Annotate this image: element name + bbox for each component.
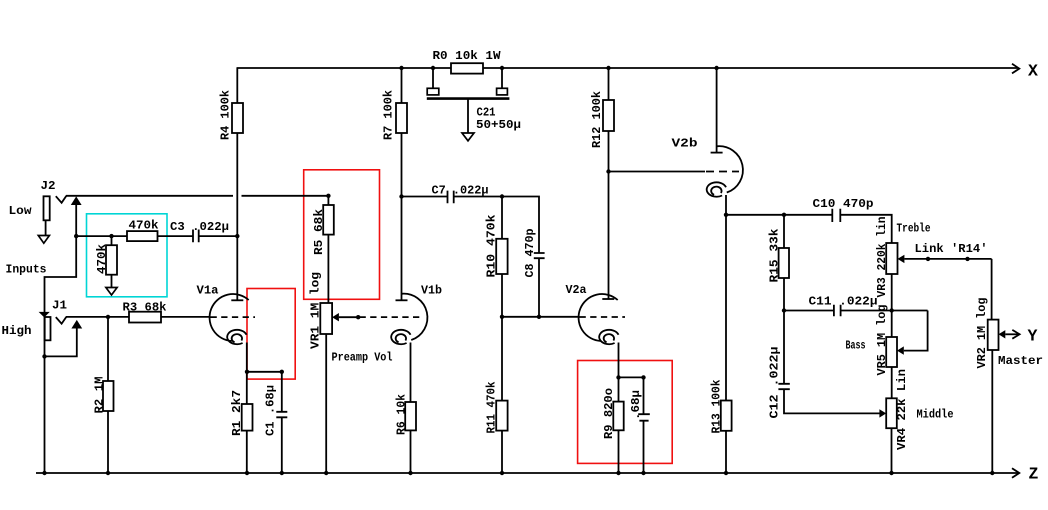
capacitor C3 (193, 230, 199, 243)
wire C7 to R10/C8 (454, 197, 539, 254)
svg-text:R0 10k 1W: R0 10k 1W (433, 49, 502, 63)
V1a cathode curl (227, 330, 246, 344)
resistor R2 (103, 381, 114, 411)
wire V2b plate (716, 68, 718, 153)
node R9 top (616, 375, 620, 379)
svg-text:C10 470p: C10 470p (813, 197, 874, 211)
wire R5/VR1 column (327, 196, 329, 303)
node V2b cathode junction (724, 213, 728, 217)
node cathode junction (245, 370, 249, 374)
wire cathode to bypass cap (619, 376, 644, 378)
wire V2b cathode / R13 (725, 195, 727, 473)
wire V1a cathode (246, 343, 248, 474)
jack J1 high input (45, 317, 51, 340)
J1 switch contact arrow (71, 320, 82, 329)
svg-text:R11 470k: R11 470k (485, 381, 499, 433)
resistor R6 (405, 402, 416, 430)
svg-text:Low: Low (9, 204, 33, 218)
potentiometer VR2 master volume (988, 320, 999, 350)
node R5 top (326, 194, 330, 198)
wire plate to C7 (402, 196, 448, 198)
node rail R13 (724, 471, 728, 475)
wire VR1 wiper (339, 316, 358, 318)
svg-text:R15 33k: R15 33k (768, 228, 782, 283)
node rail J1 (42, 471, 46, 475)
wire VR5 wiper loop (904, 311, 928, 351)
node link left (926, 257, 930, 261)
wire V1b grid dashed (360, 316, 421, 318)
wire V2a grid dashed (580, 316, 626, 318)
svg-text:V2a: V2a (566, 283, 588, 297)
svg-text:R5 68k: R5 68k (312, 208, 326, 255)
highlight box red R5 region (304, 170, 380, 299)
svg-text:R1 2k7: R1 2k7 (230, 390, 244, 436)
J2 tip contact (56, 196, 67, 203)
svg-text:C7 .022µ: C7 .022µ (432, 184, 489, 198)
wire R4 column (236, 68, 238, 300)
node rail R2 (106, 471, 110, 475)
node C21 right (500, 66, 504, 70)
node R7 rail (399, 66, 403, 70)
svg-text:Y: Y (1028, 327, 1038, 346)
wire C21 right lead (501, 68, 503, 88)
wire C12 to VR4 wiper (784, 389, 880, 413)
svg-text:High: High (2, 324, 32, 338)
svg-text:C11 .022µ: C11 .022µ (809, 295, 878, 309)
capacitor C8 (534, 253, 545, 258)
svg-text:R4 100k: R4 100k (219, 89, 233, 140)
capacitor C11 (834, 305, 841, 316)
highlight box red V1a cathode region (247, 289, 295, 380)
resistor R13 (721, 401, 732, 431)
node R10 top (500, 194, 504, 198)
capacitor C7 (448, 191, 454, 204)
svg-text:Master Vol: Master Vol (998, 354, 1048, 368)
svg-text:X: X (1028, 62, 1038, 81)
potentiometer VR4 middle (886, 398, 897, 428)
node C21 left (431, 66, 435, 70)
V1b cathode curl (391, 330, 410, 344)
VR3 wiper arrow (898, 255, 905, 263)
wire VR4 bottom (891, 428, 893, 473)
wire J2 switch down (45, 205, 77, 313)
wire J2 tip (66, 195, 233, 197)
VR4 wiper arrow (879, 409, 886, 417)
svg-text:J1: J1 (52, 299, 67, 313)
svg-text:Link 'R14': Link 'R14' (915, 242, 988, 256)
node V2b rail (714, 66, 718, 70)
wire V1b cathode / R6 (410, 343, 412, 474)
VR2 wiper arrow (999, 330, 1006, 338)
wire J1 tip to R3 (66, 316, 129, 318)
svg-text:R3 68k: R3 68k (123, 301, 168, 315)
V2a cathode curl (599, 330, 618, 344)
resistor R12 (603, 100, 614, 131)
wire VR2 top (991, 259, 993, 320)
resistor R7 (396, 103, 407, 133)
resistor R11 (496, 401, 507, 431)
wire link R14 (904, 258, 991, 260)
wire VR1 bottom (325, 334, 327, 473)
wire R11 column (501, 317, 503, 473)
resistor R1 (242, 404, 253, 431)
wire V1a grid dashed (211, 316, 256, 318)
wire V2b grid dashed (706, 171, 739, 173)
svg-text:470k: 470k (129, 219, 160, 233)
svg-text:R7 100k: R7 100k (382, 89, 396, 140)
node rail C1 (280, 471, 284, 475)
node rail R6 (408, 471, 412, 475)
resistor R5 (323, 205, 334, 235)
node VR1 wiper (356, 315, 360, 319)
VR1 wiper arrow (332, 313, 339, 321)
wire J2 tip (after hop over R4 line) (242, 195, 329, 197)
V1b plate bar (396, 299, 408, 301)
resistor R4 (232, 103, 243, 133)
potentiometer VR5 bass (886, 337, 897, 367)
wire C21 ground (467, 99, 469, 133)
svg-text:.68µ: .68µ (629, 390, 643, 420)
VR5 wiper arrow (897, 346, 904, 354)
wire C21 left lead (432, 68, 434, 88)
jack J2 low input (44, 196, 50, 220)
svg-text:R13 100k: R13 100k (710, 379, 724, 433)
svg-text:Treble: Treble (897, 222, 931, 236)
svg-text:C3 .022µ: C3 .022µ (170, 220, 229, 234)
wire R2 column (107, 317, 109, 473)
wire R7/V1b plate column (401, 68, 403, 300)
svg-text:470k: 470k (95, 243, 109, 274)
ground arrow J2 (38, 236, 49, 244)
node rail R11 (500, 471, 504, 475)
power rail X (237, 67, 1019, 69)
V1a plate bar (231, 299, 243, 301)
resistor R3 (129, 312, 161, 323)
resistor R15 (779, 248, 789, 278)
resistor 470k shunt (106, 245, 117, 275)
wire 470k shunt (111, 236, 113, 287)
node R12 / V2b grid (606, 169, 610, 173)
ground rail Z (36, 472, 1018, 474)
node rail bypass cap (641, 471, 645, 475)
node rail VR2 (990, 471, 994, 475)
node bypass cap top (641, 375, 645, 379)
J2 switch contact arrow (71, 196, 82, 205)
wire R15 column (783, 215, 785, 384)
node rail VR1 (324, 471, 328, 475)
wire cathode to tone stack (726, 214, 832, 216)
node J1/R2 (106, 315, 110, 319)
capacitor C21 plate (427, 97, 510, 100)
resistor R0 in rail (451, 63, 483, 73)
wire output Y (1005, 333, 1018, 335)
svg-text:VR5 1M log: VR5 1M log (875, 305, 889, 376)
V2a plate bar (602, 298, 614, 300)
node rail VR4 (889, 471, 893, 475)
wire V2b grid (609, 171, 706, 173)
svg-text:VR4 22k Lin: VR4 22k Lin (895, 369, 909, 450)
node R15 top (782, 213, 786, 217)
svg-text:R6 10k: R6 10k (395, 393, 409, 435)
svg-text:VR3 220k lin: VR3 220k lin (875, 217, 889, 298)
highlight box red R9 region (578, 361, 673, 464)
wire C10 to VR3 (840, 215, 891, 243)
capacitor C1 (281, 372, 283, 473)
wire C11 left (784, 310, 834, 312)
wire 470k/C3 row (76, 235, 193, 237)
wire C8 bottom (538, 258, 540, 317)
wire VR5 to VR4 (891, 367, 893, 398)
svg-text:C1 .68µ: C1 .68µ (264, 385, 278, 436)
svg-text:J2: J2 (41, 179, 56, 193)
node rail R9 (616, 471, 620, 475)
highlight box cyan (470k input attenuator) (87, 214, 168, 297)
V2b plate bar (711, 152, 723, 154)
svg-text:VR1 1M log: VR1 1M log (309, 272, 323, 349)
svg-text:V1b: V1b (421, 284, 442, 298)
C21 right pad (497, 88, 508, 95)
svg-text:VR2 1M log: VR2 1M log (975, 298, 989, 369)
potentiometer VR3 treble (886, 243, 897, 274)
resistor 470k series (127, 231, 158, 241)
svg-text:Bass: Bass (846, 339, 866, 353)
svg-text:R9 820o: R9 820o (602, 388, 616, 439)
svg-text:Middle: Middle (917, 408, 954, 422)
wire R3 to V1a grid (161, 316, 210, 318)
node V1b plate / C7 (399, 194, 403, 198)
capacitor C10 (832, 209, 840, 222)
wire J1 switch loop (45, 328, 77, 356)
J1 tip contact (56, 317, 67, 324)
svg-text:V2b: V2b (672, 137, 698, 151)
node link right (965, 257, 969, 261)
node C3 / plate (235, 234, 239, 238)
ground arrow 470k (106, 288, 117, 296)
resistor R9 (613, 402, 623, 431)
svg-text:R12 100k: R12 100k (590, 90, 604, 148)
wire VR3 bottom to junction (891, 274, 893, 337)
ground arrow C21 (462, 133, 474, 141)
node C8 / grid wire (537, 315, 541, 319)
svg-text:C8 470p: C8 470p (523, 229, 537, 278)
wire VR2 bottom (991, 350, 993, 473)
node rail R1 (245, 471, 249, 475)
node 470k divider (109, 234, 113, 238)
capacitor .68u bypass (643, 377, 645, 473)
svg-text:Z: Z (1029, 465, 1039, 484)
node C1 top (280, 370, 284, 374)
wire R10 column (501, 197, 503, 317)
resistor R10 (496, 239, 507, 274)
node R12 rail (606, 66, 610, 70)
svg-text:V1a: V1a (197, 284, 220, 298)
node R15 bottom / C11 (782, 308, 786, 312)
wire cathode to C1 (247, 371, 282, 373)
wire C11 right / loop top (841, 310, 928, 312)
capacitor C12 (778, 384, 789, 389)
node J1 ground loop (42, 354, 46, 358)
svg-text:Inputs: Inputs (6, 263, 47, 277)
node J2 switch / 470k row (74, 234, 78, 238)
V2b cathode curl (707, 182, 726, 196)
C21 left pad (427, 88, 439, 95)
node R10 bottom (500, 315, 504, 319)
node VR3 bottom junction (890, 308, 894, 312)
svg-text:R10 470k: R10 470k (485, 214, 499, 278)
potentiometer VR1 preamp volume (320, 303, 332, 334)
wire R12 / V2a plate column (608, 68, 610, 299)
svg-text:R2 1M: R2 1M (93, 377, 107, 414)
wire V2a cathode / R9 (618, 343, 620, 474)
svg-text:50+50µ: 50+50µ (476, 118, 521, 132)
J1 sleeve arrow (39, 312, 50, 318)
svg-text:Preamp Vol: Preamp Vol (332, 351, 393, 365)
wire input ground column (44, 312, 46, 473)
svg-text:C12 .022µ: C12 .022µ (768, 347, 782, 419)
wire to V2a grid (502, 316, 579, 318)
wire C3 to V1a plate node (199, 235, 238, 237)
